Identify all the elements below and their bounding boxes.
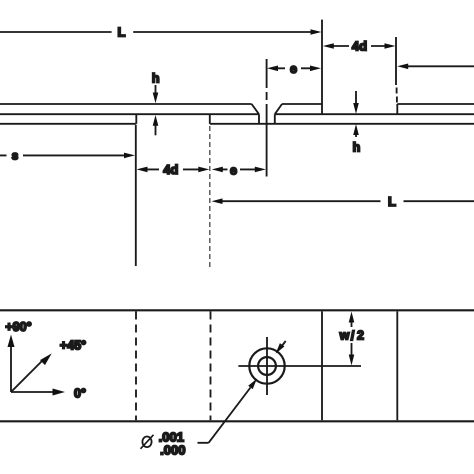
label w/2 [339,328,364,343]
fiber angle axis 45 arrow [11,353,52,392]
dimension 4d bottom [137,167,210,173]
label +90 deg [5,320,31,334]
hole vertical centerline [266,337,268,395]
svg-text:2: 2 [357,328,364,342]
label s [12,150,18,162]
svg-text:/: / [351,328,355,343]
dimension w/2 upper arrow [349,312,355,328]
label h right [353,140,361,154]
svg-text:L: L [388,194,396,209]
countersunk fastener head [252,104,282,114]
svg-text:w: w [339,328,350,342]
left grip tab bottom edge [0,123,136,125]
lower adherend bottom edge [210,123,474,125]
lower adherend left end edge [209,114,211,124]
label 0 deg [74,387,86,401]
upper adherend right end edge with extension line [321,20,323,115]
hole horizontal centerline [238,365,361,367]
label hole diameter tolerance [159,430,186,458]
label 4d top [352,39,367,54]
dimension h left lower arrow [153,115,159,135]
svg-text:4d: 4d [352,39,367,54]
svg-text:L: L [118,25,126,40]
extension line above right tab [395,37,398,103]
label L top [118,25,126,40]
upper adherend end edge (plan) [321,312,323,421]
right tab edge (plan) [396,312,398,421]
label e bottom [230,163,237,177]
dimension 4d top [323,43,396,49]
dimension h right lower arrow [353,124,359,137]
svg-text:h: h [353,140,361,154]
fastener shank [259,114,275,124]
label e top [290,62,297,76]
dimension L lower adherend length [212,198,474,204]
dimension w/2 lower arrow [349,343,355,366]
fastener hole countersink circle [249,348,284,383]
fiber angle axis 0 arrow [11,389,65,396]
dimension line to right edge [397,64,474,70]
left grip tab right edge [135,114,137,124]
fastener hole inner circle [258,357,276,375]
svg-text:e: e [290,62,297,76]
dimension L upper adherend length [0,29,322,35]
plan view top edge [0,309,474,311]
label h left [152,72,160,86]
svg-text:0°: 0° [74,387,86,401]
upper adherend top edge [0,103,322,105]
leader line to hole lower left [198,379,258,443]
svg-text:s: s [12,150,18,162]
extension line from lower adherend end (dashed) [209,126,211,268]
right grip tab top edge [397,103,474,105]
dimension e bottom [212,167,266,173]
dimension h right upper arrow [353,91,359,114]
fiber angle axis 90 arrow [8,335,15,393]
leader arrow upper right of hole [276,341,286,354]
svg-text:e: e [230,163,237,177]
hidden line lower adherend end (plan) [210,312,212,421]
label 4d bottom [163,162,178,177]
extension line from left tab edge [135,125,137,266]
svg-text:h: h [152,72,160,86]
faying surface line [0,113,474,115]
svg-text:4d: 4d [163,162,178,177]
label hole diameter symbol [141,435,154,449]
dimension h left upper arrow [153,85,159,103]
dimension e top [267,66,321,72]
dimension s left tab [0,153,135,159]
svg-text:.000: .000 [160,442,185,457]
label L bottom [388,194,396,209]
svg-text:+90°: +90° [5,320,31,334]
fastener centerline [266,59,268,177]
label +45 deg [60,339,86,353]
svg-text:+45°: +45° [60,339,86,353]
plan view bottom edge [0,420,474,422]
right grip tab left edge [396,104,398,114]
hidden line left tab edge (plan) [135,312,137,421]
